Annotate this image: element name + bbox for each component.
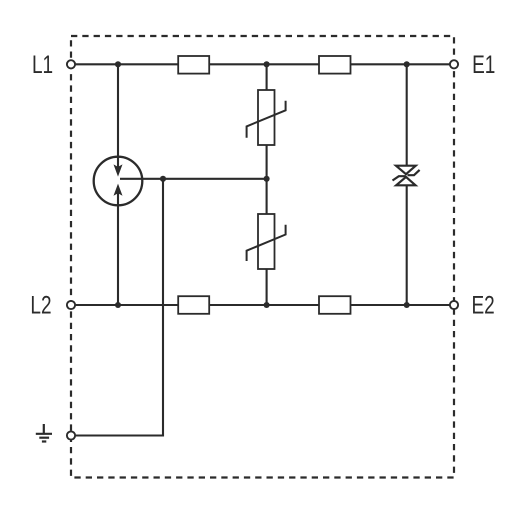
svg-text:E1: E1 xyxy=(472,51,495,79)
svg-text:L1: L1 xyxy=(32,51,53,79)
svg-text:E2: E2 xyxy=(472,291,495,319)
svg-text:L2: L2 xyxy=(30,291,51,319)
